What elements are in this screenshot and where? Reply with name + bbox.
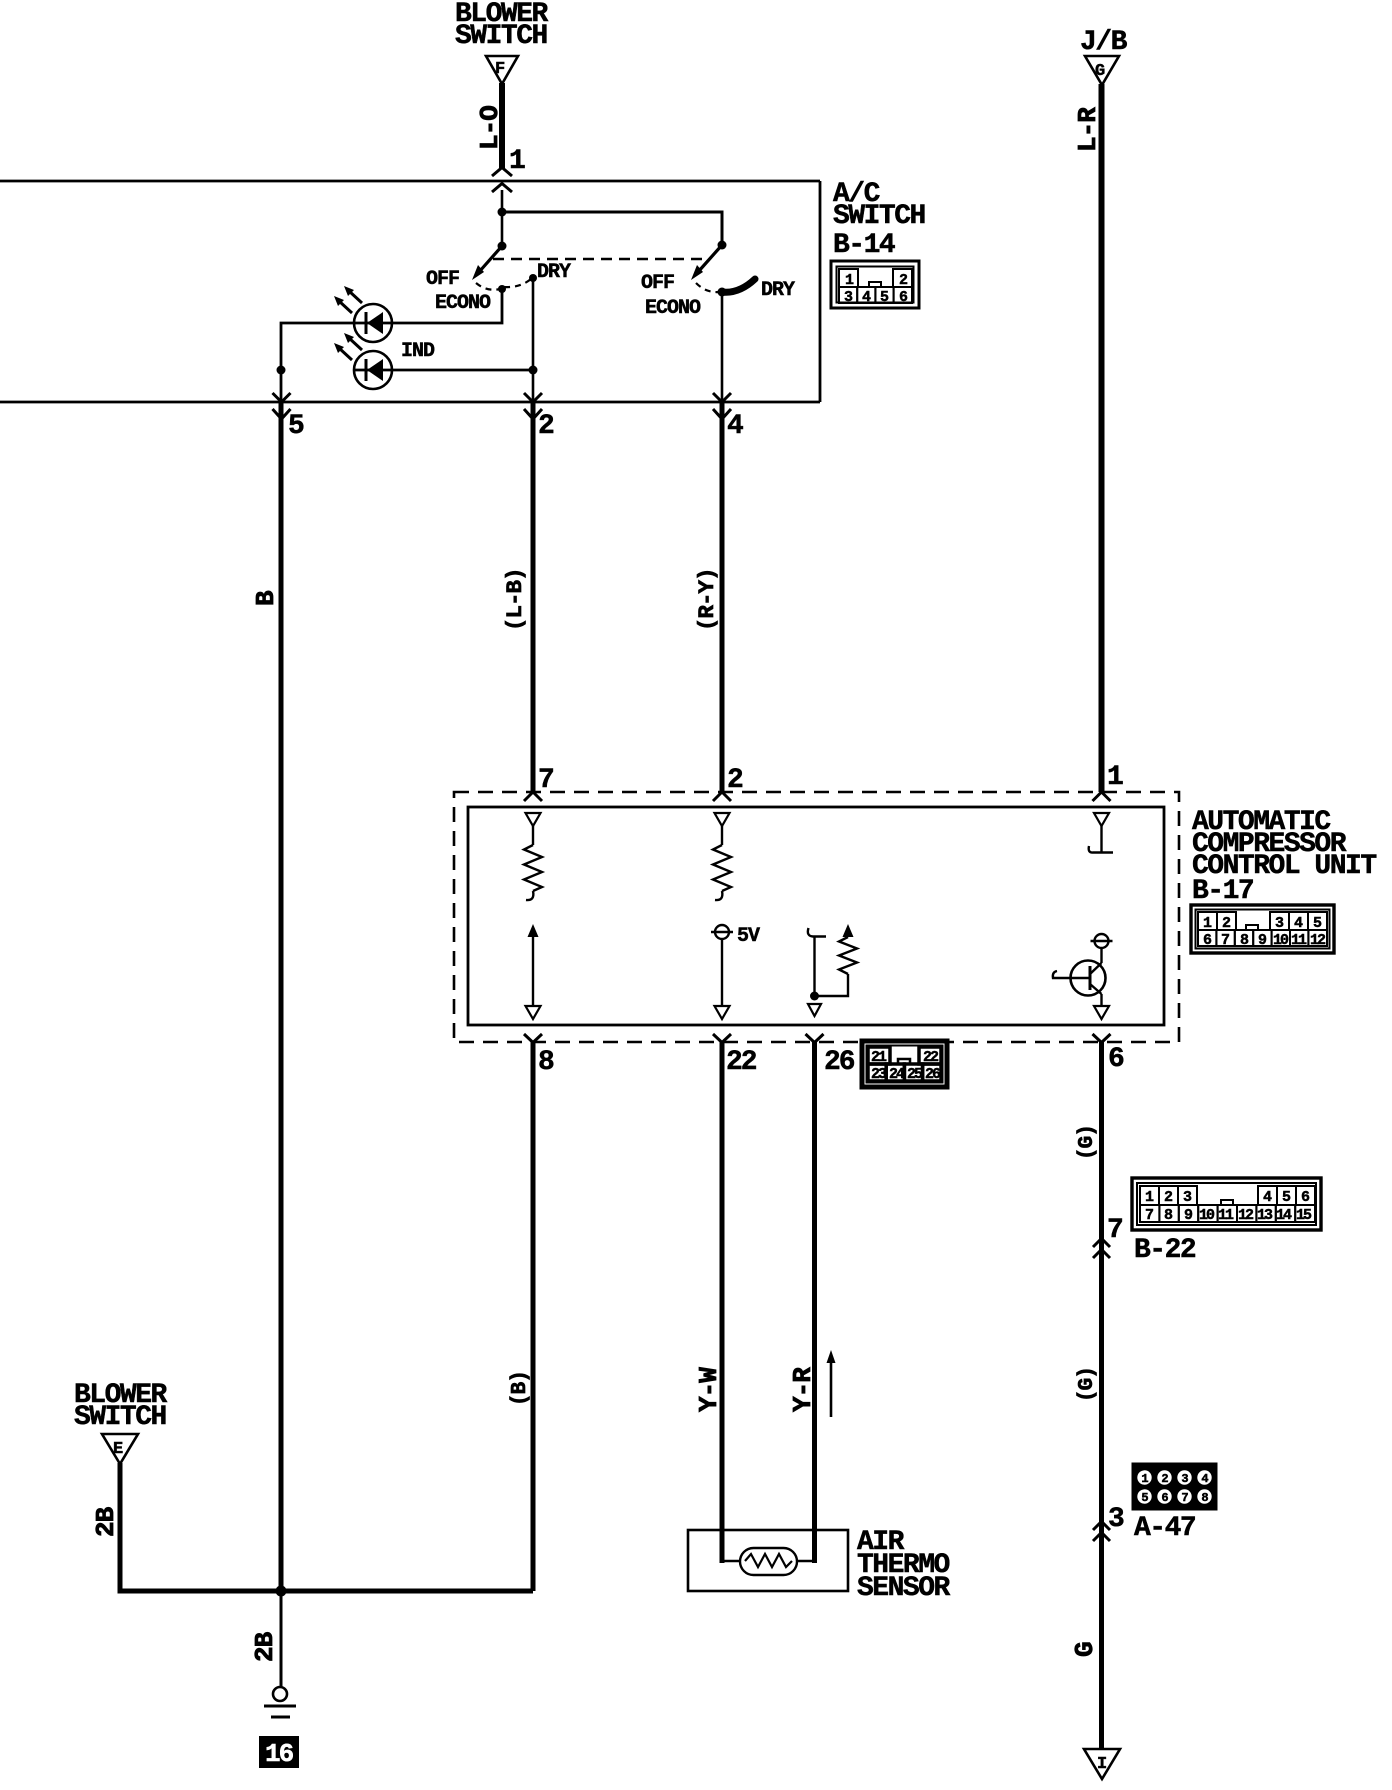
svg-text:Y-W: Y-W [694,1367,724,1412]
svg-text:8: 8 [1201,1491,1208,1505]
svg-text:7: 7 [538,765,553,796]
svg-text:14: 14 [1276,1207,1292,1224]
wire B (pin 8 down) [531,1042,536,1591]
svg-text:1: 1 [1141,1472,1148,1486]
svg-text:10: 10 [1199,1207,1215,1224]
svg-text:16: 16 [265,1739,294,1769]
svg-text:J/B: J/B [1080,27,1128,58]
connector I triangle (bottom) [1084,1749,1120,1779]
wire G (pin 6 down to connector I) [1099,1042,1104,1749]
svg-text:13: 13 [1257,1207,1273,1224]
sensor input hook (pin 26 branch) [808,928,826,937]
connector G triangle [1085,56,1119,85]
LED2 (IND indicator) [354,351,392,389]
svg-text:26: 26 [925,1066,941,1083]
svg-text:22: 22 [923,1049,939,1066]
transistor Q (output) [1071,961,1106,996]
connector diagram B-22 [1132,1178,1321,1230]
pin 6 exit chevron [1093,1034,1111,1043]
DRY contact node (switch 1) [529,274,537,282]
ground symbol [273,1687,287,1701]
wire B (pin 5 down to ground run) [279,402,284,1591]
svg-text:11: 11 [1218,1207,1234,1224]
node pin 26 junction [810,992,819,1001]
svg-text:DRY: DRY [537,261,571,284]
switch 1 pivot node [498,242,507,251]
resistor (pin 7 pull-up) [532,826,534,845]
svg-text:IND: IND [401,340,435,363]
pin 2 entry chevron [713,792,731,801]
control unit solid inner box [468,807,1164,1025]
svg-text:SWITCH: SWITCH [74,1402,166,1433]
ECONO contact node (switch 2) [718,288,727,297]
ground ref box 16 [259,1736,299,1768]
air thermo sensor box [688,1530,848,1591]
svg-text:1: 1 [509,146,525,177]
pin 5 exit chevrons [273,393,291,402]
pin 7 entry chevron [524,792,542,801]
svg-text:SWITCH: SWITCH [833,201,925,232]
svg-text:(G): (G) [1076,1125,1099,1160]
pin 22 exit chevron [713,1034,731,1043]
connector diagram B-17 [1191,905,1334,953]
node: feed junction [498,208,507,217]
connector diagram B-14 [831,261,919,308]
pin 4 exit chevrons [713,393,731,402]
connector chevrons at pin 1 [492,168,512,177]
svg-text:G: G [1070,1642,1100,1657]
thermistor element [740,1548,797,1575]
wire LED2 right lead to DRY wire [392,369,533,372]
pin 8 exit chevron [524,1034,542,1043]
wire 2B from E [120,1463,533,1591]
svg-text:24: 24 [889,1066,905,1083]
5V supply node [715,925,729,939]
svg-text:7: 7 [1221,932,1229,949]
svg-text:8: 8 [538,1047,554,1078]
svg-text:12: 12 [1310,932,1326,949]
svg-text:SWITCH: SWITCH [455,21,547,52]
svg-text:Y-R: Y-R [788,1367,818,1412]
svg-text:A-47: A-47 [1134,1513,1195,1544]
svg-text:3: 3 [1108,1504,1124,1535]
svg-text:2B: 2B [91,1506,121,1537]
wire L-O from F to A/C switch [499,83,505,169]
svg-text:23: 23 [871,1066,887,1083]
A-47 inline chevrons [1093,1522,1110,1531]
comparator input arrow (pin 7 branch) [528,924,539,937]
pin 2 terminal triangle [715,813,730,826]
svg-text:E: E [113,1440,123,1459]
svg-text:21: 21 [871,1049,887,1066]
wire L-R (J/B to unit pin 1) [1099,84,1105,792]
wire LED1 to LED2 left leg [281,323,354,370]
pin 26 terminal triangle [808,1004,821,1016]
pin 2 exit chevrons [524,393,542,402]
pin 26 exit chevron [806,1034,824,1043]
LED2 light arrows [349,338,362,350]
wire R-Y (pin 4 to unit pin 2) [720,402,725,792]
svg-text:7: 7 [1107,1215,1122,1246]
svg-text:22: 22 [726,1047,757,1078]
svg-text:OFF: OFF [426,268,459,291]
connector F triangle [486,56,518,84]
svg-text:2: 2 [727,765,743,796]
svg-text:B-22: B-22 [1134,1235,1196,1266]
svg-text:5: 5 [288,411,304,442]
DRY thick wiper arc (switch 2) [722,279,755,292]
wire ECONO2 down to pin 4 [721,292,724,402]
emitter terminal triangle [1094,1006,1109,1019]
connector diagram A-47 [1132,1463,1217,1510]
ECONO contact node (switch 1) [498,285,506,293]
svg-text:SENSOR: SENSOR [857,1573,951,1604]
dashed arc OFF-ECONO (switch 2) [696,283,719,292]
resistor (pin 2 pull-up) [721,826,723,845]
pin 1 entry chevron [1093,792,1111,801]
svg-text:I: I [1097,1755,1107,1774]
svg-text:4: 4 [727,411,743,442]
wire L-B (pin 2 to unit pin 7) [531,402,536,792]
svg-text:L-R: L-R [1073,107,1103,152]
svg-text:L-O: L-O [475,106,505,150]
svg-text:10: 10 [1273,932,1289,949]
switch 2 arm (to OFF) [698,245,722,272]
resistor (pin 26 pull-up) [843,924,854,937]
svg-text:F: F [495,60,505,79]
svg-text:25: 25 [907,1066,923,1083]
connector E triangle [102,1434,138,1464]
wire Y-W (pin 22 to sensor) [720,1042,725,1563]
svg-text:6: 6 [1108,1044,1124,1075]
LED1 (A/C switch illumination) [354,304,392,342]
pin 7 terminal triangle [526,813,541,826]
wire LED junction down to pin 5 [280,370,283,402]
wire junction to ground [280,1591,283,1687]
svg-text:B-14: B-14 [833,230,895,261]
svg-text:B: B [251,590,281,606]
switch 1 arm (to OFF) [479,246,502,272]
svg-text:2B: 2B [250,1631,280,1662]
svg-text:5: 5 [1141,1491,1148,1505]
control unit dashed outer box [454,792,1179,1042]
collector supply node [1095,934,1109,948]
wire to switch 1 pivot [501,212,504,246]
LED1 light arrows [349,291,362,303]
internal ground tab (pin 1) [1100,826,1102,852]
svg-text:4: 4 [1201,1472,1208,1486]
svg-text:B-17: B-17 [1192,876,1253,907]
svg-text:ECONO: ECONO [645,297,701,320]
current direction arrow (Y-R) [830,1358,833,1417]
svg-text:7: 7 [1181,1491,1188,1505]
svg-text:(G): (G) [1076,1367,1099,1402]
wire DRY contact down to pin 2 [532,278,535,402]
pin 1 terminal triangle [1094,813,1109,826]
svg-text:12: 12 [1238,1207,1254,1224]
dashed arc ECONO-DRY (switch 1) [504,279,531,287]
sensor internal leads [722,1560,741,1563]
switch 2 pivot node [718,241,727,250]
svg-text:2: 2 [538,411,554,442]
svg-text:(L-B): (L-B) [502,568,528,631]
svg-text:(B): (B) [509,1371,532,1406]
A/C switch box bottom edge [0,401,820,404]
svg-text:5V: 5V [737,925,760,948]
A/C switch box right edge [819,181,822,402]
node ground junction [276,1586,287,1597]
svg-text:15: 15 [1296,1207,1312,1224]
svg-text:OFF: OFF [641,272,674,295]
svg-text:26: 26 [824,1047,855,1078]
wire ECONO contact to LED1 [393,289,502,323]
svg-text:G: G [1095,62,1105,81]
svg-text:6: 6 [1161,1491,1168,1505]
svg-text:2: 2 [1161,1472,1168,1486]
dashed arc OFF-ECONO (switch 1) [476,283,500,290]
svg-text:(R-Y): (R-Y) [694,568,720,631]
svg-text:DRY: DRY [761,279,795,302]
svg-text:11: 11 [1291,932,1307,949]
svg-text:1: 1 [1107,762,1123,793]
B-22 inline chevrons [1093,1239,1110,1248]
node LED2/DRY junction [529,366,538,375]
svg-text:3: 3 [1181,1472,1188,1486]
ganged switch dashed link [493,258,704,260]
node LED2 left junction [277,366,286,375]
svg-text:7: 7 [1145,1207,1153,1224]
svg-text:ECONO: ECONO [435,292,491,315]
A/C switch box top edge [0,180,820,183]
wire Y-R (pin 26 to sensor) [812,1042,817,1563]
connector diagram 21-26 [862,1041,947,1087]
wire feed to switch 2 [502,212,722,245]
